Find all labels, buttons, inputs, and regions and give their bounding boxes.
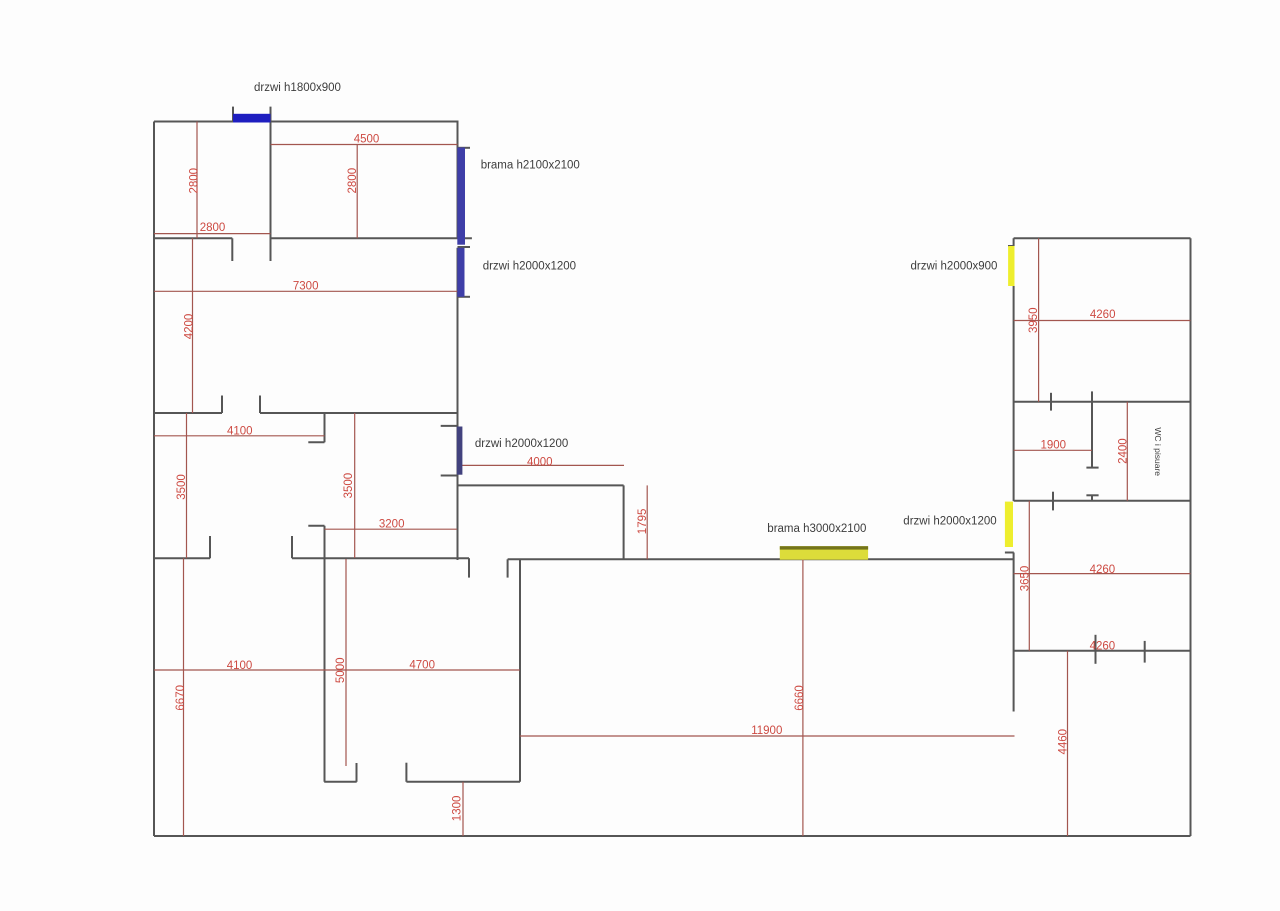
svg-text:4200: 4200 bbox=[184, 314, 196, 340]
wall x1092 (wc west) bbox=[1091, 391, 1093, 467]
wall y558 west segment bbox=[154, 557, 210, 559]
door tick y476 bbox=[441, 475, 458, 477]
door tick y468 bbox=[1086, 467, 1098, 469]
svg-text:7300: 7300 bbox=[293, 280, 319, 292]
dim line 11900 bbox=[520, 735, 1015, 737]
svg-text:drzwi h2000x1200: drzwi h2000x1200 bbox=[483, 261, 576, 273]
wall x324 bbox=[324, 526, 326, 782]
outer left wall bbox=[153, 122, 155, 837]
wall y402 (right block) bbox=[1014, 401, 1191, 403]
dim line 1900 bbox=[1014, 449, 1092, 451]
wall x1013 mid bbox=[1013, 286, 1015, 501]
wall y238 west segment bbox=[154, 237, 232, 239]
svg-text:4500: 4500 bbox=[354, 133, 380, 145]
door jamb x406 bbox=[405, 763, 407, 782]
niche east wall x624 bbox=[623, 485, 625, 559]
svg-text:4260: 4260 bbox=[1090, 564, 1116, 576]
door jamb x356 bbox=[356, 763, 358, 782]
svg-text:6660: 6660 bbox=[794, 685, 806, 711]
svg-text:3500: 3500 bbox=[176, 474, 188, 500]
wall x1013 above yellow door bbox=[1013, 238, 1015, 246]
svg-text:3950: 3950 bbox=[1028, 307, 1040, 333]
svg-text:drzwi h2000x1200: drzwi h2000x1200 bbox=[903, 516, 996, 528]
wall x1013 lower bbox=[1013, 553, 1015, 712]
wall y413 west segment bbox=[154, 412, 222, 414]
door jamb x233 top bbox=[232, 107, 234, 122]
gate brama h3000x2100 (yellow, hall north wall) bbox=[780, 546, 868, 560]
door jamb x222 bbox=[221, 396, 223, 414]
svg-text:5000: 5000 bbox=[335, 658, 347, 684]
door drzwi h2000x1200 (blue bar, east wall upper) bbox=[457, 248, 464, 297]
wall y559 east long segment bbox=[508, 558, 1014, 560]
svg-text:brama h3000x2100: brama h3000x2100 bbox=[767, 523, 866, 535]
wall y782 west segment bbox=[324, 781, 357, 783]
outer top wall (left block) bbox=[154, 121, 459, 123]
door jamb x292 bbox=[291, 536, 293, 558]
wall stub leg y442 bbox=[308, 441, 324, 443]
gate brama h2100x2100 (blue bar, east wall of left block) bbox=[457, 148, 465, 245]
dim line 3200 bbox=[325, 528, 458, 530]
svg-text:4700: 4700 bbox=[409, 660, 435, 672]
outer right wall bbox=[1190, 238, 1192, 836]
door tick y297 bbox=[458, 296, 471, 298]
wall y651 (right block) bbox=[1014, 650, 1191, 652]
door drzwi h2000x1200 (yellow, right block west wall lower) bbox=[1005, 502, 1013, 547]
svg-text:4000: 4000 bbox=[527, 456, 553, 468]
door tick y495 bbox=[1086, 494, 1098, 496]
gate tick y148 bbox=[458, 147, 471, 149]
svg-text:drzwi h2000x900: drzwi h2000x900 bbox=[911, 261, 998, 273]
dim line 4100-4700 bottom bbox=[154, 669, 520, 671]
door jamb x260 bbox=[259, 396, 261, 414]
svg-text:3500: 3500 bbox=[343, 473, 355, 499]
door drzwi h2000x1200 (blue bar, east wall lower) bbox=[457, 427, 463, 475]
wall x520 (hall west) bbox=[519, 559, 521, 782]
svg-text:4260: 4260 bbox=[1090, 309, 1116, 321]
door drzwi h2000x900 (yellow, right block west wall) bbox=[1008, 246, 1014, 286]
svg-text:1900: 1900 bbox=[1041, 440, 1067, 452]
wall y558 mid segment bbox=[292, 557, 469, 559]
dim line 3500 right bbox=[354, 413, 356, 558]
door step tick y246 bbox=[1008, 245, 1014, 247]
dim line 4100 corridor bbox=[154, 435, 325, 437]
door tick y426 bbox=[441, 425, 458, 427]
wall x458 upper (left block east) bbox=[457, 122, 459, 239]
dim line 4000 bbox=[462, 464, 624, 466]
dim line 1795 bbox=[646, 485, 648, 559]
dim line 3650 bbox=[1028, 501, 1030, 651]
wall y238 east segment bbox=[271, 237, 472, 239]
dim line 3950 bbox=[1038, 238, 1040, 402]
door tick x1051 on y402 bbox=[1050, 393, 1052, 411]
svg-text:11900: 11900 bbox=[751, 725, 782, 737]
svg-text:4460: 4460 bbox=[1058, 729, 1070, 755]
svg-text:drzwi h2000x1200: drzwi h2000x1200 bbox=[475, 438, 568, 450]
dim line 5000 bbox=[345, 559, 347, 766]
wall x270 (between top rooms) bbox=[270, 107, 272, 261]
svg-text:2800: 2800 bbox=[347, 168, 359, 194]
door hook y552 bbox=[1005, 552, 1014, 554]
door tick x1053 on y501 bbox=[1052, 492, 1054, 511]
door tick y247 bbox=[458, 246, 471, 248]
gate brama h3000x2100 dark top edge bbox=[780, 546, 868, 549]
door tick x1095 on y651 bbox=[1095, 635, 1097, 664]
wall stub leg y526 bbox=[308, 525, 324, 527]
svg-text:3200: 3200 bbox=[379, 519, 405, 531]
door jamb x508 bbox=[507, 559, 509, 577]
wall x458 lower (left block east) bbox=[457, 248, 459, 560]
dim line 4500 bbox=[271, 144, 458, 146]
door jamb x232 bbox=[231, 238, 233, 261]
svg-text:4260: 4260 bbox=[1090, 641, 1116, 653]
outer bottom wall bbox=[154, 835, 1191, 837]
svg-text:1300: 1300 bbox=[452, 796, 464, 822]
dim line 6670 bbox=[183, 558, 185, 836]
svg-text:1795: 1795 bbox=[637, 509, 649, 535]
dim line 4260 middle bbox=[1014, 573, 1191, 575]
door jamb x210 bbox=[209, 536, 211, 558]
dim line 2800 vertical room2 bbox=[356, 145, 358, 239]
door tick x1145 on y651 bbox=[1144, 641, 1146, 663]
dim line 2800 horizontal bbox=[154, 233, 271, 235]
dim line 3500 left bbox=[186, 413, 188, 558]
wall y413 east segment bbox=[260, 412, 458, 414]
dim line 2800 vertical room1 bbox=[196, 122, 198, 239]
door drzwi h1800x900 (blue, top-left) bbox=[233, 114, 271, 123]
niche top wall y485 bbox=[458, 484, 624, 486]
svg-text:6670: 6670 bbox=[175, 685, 187, 711]
svg-text:2800: 2800 bbox=[188, 168, 200, 194]
svg-text:4100: 4100 bbox=[227, 426, 253, 438]
svg-text:2400: 2400 bbox=[1118, 438, 1130, 464]
dim line 1300 bbox=[462, 782, 464, 836]
dim line 4200 bbox=[192, 238, 194, 413]
wall y501 (right block) bbox=[1014, 500, 1191, 502]
svg-text:4100: 4100 bbox=[227, 660, 253, 672]
wall stub x324 upper bbox=[324, 413, 326, 442]
wall x1092 stub bbox=[1091, 495, 1093, 501]
svg-text:3650: 3650 bbox=[1019, 566, 1031, 592]
dim line 6660 bbox=[802, 559, 804, 836]
dim line 4460 bbox=[1067, 651, 1069, 836]
svg-text:2800: 2800 bbox=[200, 222, 226, 234]
wall y782 east segment bbox=[406, 781, 520, 783]
dim line 4260 top bbox=[1014, 320, 1191, 322]
dim line 2400 bbox=[1126, 402, 1128, 501]
door jamb x469 bbox=[468, 558, 470, 577]
top wall (right block) bbox=[1014, 237, 1191, 239]
svg-text:WC i pisuare: WC i pisuare bbox=[1153, 427, 1163, 476]
svg-text:drzwi h1800x900: drzwi h1800x900 bbox=[254, 82, 341, 94]
svg-text:brama h2100x2100: brama h2100x2100 bbox=[481, 160, 580, 172]
dim line 7300 bbox=[154, 290, 458, 292]
